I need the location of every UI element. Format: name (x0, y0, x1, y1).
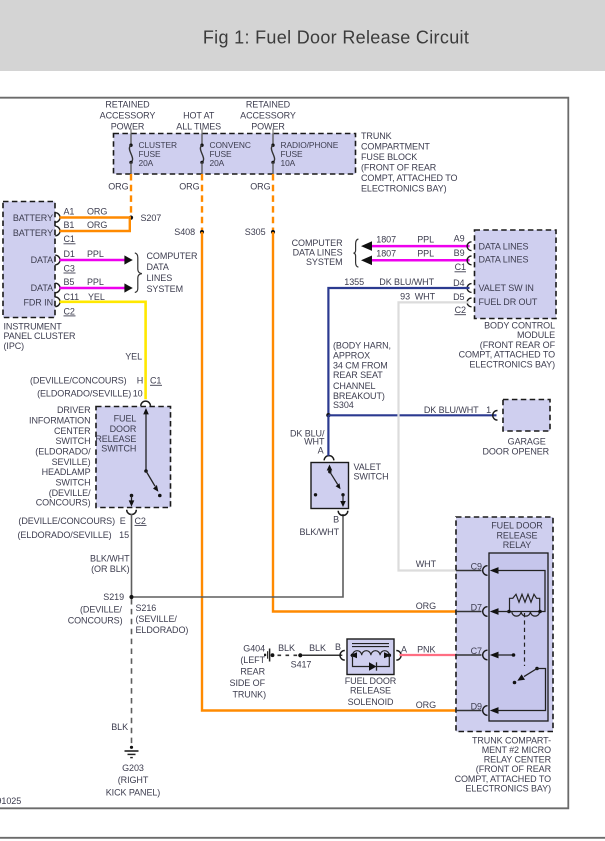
svg-text:(OR BLK): (OR BLK) (91, 564, 129, 574)
fuel door release relay outer box (456, 517, 553, 732)
svg-text:LINES: LINES (147, 273, 173, 283)
svg-text:G404: G404 (243, 644, 265, 654)
svg-text:CHANNEL: CHANNEL (333, 381, 376, 391)
svg-text:(DEVILLE/: (DEVILLE/ (80, 605, 122, 615)
svg-text:DATA LINES: DATA LINES (479, 241, 529, 251)
wire PNK solenoid A to relay C7 (400, 654, 457, 656)
svg-text:B9: B9 (454, 248, 465, 258)
svg-text:POWER: POWER (111, 122, 145, 132)
svg-text:TRUNK): TRUNK) (232, 689, 266, 699)
arrow B5 to computer data lines (124, 283, 132, 292)
IPC pin B1 connector arc (55, 226, 60, 236)
svg-text:KICK PANEL): KICK PANEL) (106, 787, 161, 797)
svg-text:C1: C1 (64, 234, 75, 244)
solenoid pin A arc (396, 651, 401, 661)
svg-text:(ELDORADO/SEVILLE): (ELDORADO/SEVILLE) (18, 530, 112, 540)
label computer data lines system (right) (292, 238, 343, 267)
svg-text:BLK: BLK (278, 643, 295, 653)
svg-text:D9: D9 (471, 701, 482, 711)
svg-text:BODY CONTROL: BODY CONTROL (484, 321, 555, 331)
svg-text:COMPT, ATTACHED TO: COMPT, ATTACHED TO (459, 349, 555, 359)
fuse F1 CLUSTER FUSE 20A (129, 134, 177, 175)
svg-text:DATA: DATA (147, 262, 169, 272)
IPC pin names (13, 213, 53, 307)
wire PPL B5 data line (60, 287, 127, 290)
label HOT AT ALL TIMES (convenc fuse) (176, 111, 221, 132)
svg-text:C1: C1 (455, 262, 466, 272)
svg-text:FDR IN: FDR IN (23, 297, 53, 307)
relay internal wire D7 to coil (497, 611, 509, 613)
svg-text:A1: A1 (64, 207, 75, 217)
svg-text:FUEL: FUEL (114, 413, 137, 423)
relay pin C9 (483, 566, 488, 576)
svg-text:1: 1 (486, 405, 491, 415)
svg-text:CONCOURS): CONCOURS) (68, 616, 123, 626)
svg-text:PPL: PPL (87, 277, 104, 287)
svg-text:RELEASE: RELEASE (95, 434, 136, 444)
label instrument panel cluster (4, 321, 77, 351)
svg-text:BLK: BLK (111, 722, 128, 732)
svg-text:S207: S207 (141, 213, 162, 223)
connector arc valet A (324, 456, 334, 461)
svg-text:34 CM FROM: 34 CM FROM (333, 360, 388, 370)
brace computer data lines (right) (354, 239, 359, 267)
relay switch contact (513, 667, 539, 685)
wire PPL 1807 A9 data line (369, 245, 470, 248)
wire ORG A1 to S207 (60, 216, 132, 218)
svg-text:ACCESSORY: ACCESSORY (240, 111, 296, 121)
wire stub D7 inside trunk relay center (456, 611, 482, 613)
trunk compartment fuse block box (114, 134, 356, 175)
svg-text:D7: D7 (471, 602, 482, 612)
svg-text:C1: C1 (150, 376, 161, 386)
BCM pin names (479, 241, 538, 306)
splice S408 (200, 230, 204, 234)
wire BLK/WHT switch C2 to S219 (131, 514, 133, 597)
svg-text:DATA LINES: DATA LINES (479, 255, 529, 265)
svg-text:C3: C3 (64, 263, 75, 273)
BCM pin D4 arc (467, 284, 471, 293)
svg-text:C11: C11 (64, 292, 80, 302)
svg-text:RELEASE: RELEASE (497, 530, 538, 540)
wire ORG B1 to S207 (60, 219, 130, 231)
svg-text:DK BLU/WHT: DK BLU/WHT (424, 405, 479, 415)
svg-text:REAR: REAR (240, 667, 265, 677)
svg-text:BLK: BLK (309, 643, 326, 653)
svg-text:(DEVILLE/CONCOURS): (DEVILLE/CONCOURS) (30, 376, 127, 386)
svg-text:COMPUTER: COMPUTER (147, 251, 198, 261)
svg-text:B: B (333, 515, 339, 525)
svg-text:ELECTRONICS BAY): ELECTRONICS BAY) (465, 784, 551, 794)
wire BLK S417 to solenoid B (302, 654, 342, 656)
wire ORG S305 to relay D7 (vertical run) (273, 232, 456, 612)
fuse F2 CONVENC FUSE 20A (200, 134, 251, 175)
svg-text:(DEVILLE/: (DEVILLE/ (49, 488, 91, 498)
svg-text:REAR SEAT: REAR SEAT (333, 370, 383, 380)
svg-text:B: B (335, 642, 341, 652)
wire BLK G404 to S417 (dashed) (278, 654, 298, 656)
relay internal wire C7 to contact (497, 654, 514, 656)
svg-text:(FRONT REAR OF: (FRONT REAR OF (480, 340, 556, 350)
svg-text:93: 93 (400, 292, 410, 302)
svg-text:B5: B5 (64, 277, 75, 287)
wire ORG from cluster fuse (dashed) (130, 174, 132, 215)
svg-text:VALET SW IN: VALET SW IN (479, 283, 534, 293)
svg-text:BATTERY: BATTERY (13, 213, 53, 223)
relay pin C7 (483, 650, 488, 660)
svg-text:G203: G203 (122, 763, 144, 773)
svg-text:ELECTRONICS BAY): ELECTRONICS BAY) (469, 360, 555, 370)
wire feed stub to cluster fuse (130, 129, 132, 134)
brace computer data lines (left) (135, 253, 142, 293)
svg-text:ORG: ORG (108, 181, 128, 191)
wire YEL C11 fuel door feed (60, 302, 146, 400)
svg-text:ORG: ORG (416, 700, 436, 710)
svg-text:INFORMATION: INFORMATION (29, 415, 90, 425)
label fuel door release solenoid (345, 676, 397, 707)
svg-text:(ELDORADO/: (ELDORADO/ (35, 447, 91, 457)
svg-text:FUEL DOOR: FUEL DOOR (491, 521, 543, 531)
connector arc switch C1 (141, 401, 151, 406)
svg-text:SEVILLE): SEVILLE) (52, 457, 91, 467)
svg-text:SWITCH: SWITCH (55, 436, 90, 446)
wire ORG S408 to relay D9 (vertical run) (202, 232, 456, 711)
svg-text:SWITCH: SWITCH (101, 444, 136, 454)
svg-text:A9: A9 (454, 234, 465, 244)
svg-text:DOOR: DOOR (110, 424, 137, 434)
svg-text:ORG: ORG (179, 181, 199, 191)
svg-text:D1: D1 (64, 249, 75, 259)
svg-text:(FRONT OF REAR: (FRONT OF REAR (361, 163, 437, 173)
svg-text:PNK: PNK (417, 644, 435, 654)
svg-text:MENT #2 MICRO: MENT #2 MICRO (482, 745, 551, 755)
svg-text:FUEL DOOR: FUEL DOOR (345, 676, 397, 686)
svg-text:GARAGE: GARAGE (508, 436, 546, 446)
svg-text:(RIGHT: (RIGHT (118, 775, 149, 785)
label driver information center switch / headlamp switch (29, 405, 91, 507)
label RETAINED ACCESSORY POWER (cluster fuse) (100, 99, 156, 131)
svg-text:20A: 20A (139, 158, 154, 168)
svg-text:VALET: VALET (354, 462, 382, 472)
svg-text:C9: C9 (471, 561, 482, 571)
svg-text:YEL: YEL (88, 292, 105, 302)
arrow D1 to computer data lines (124, 255, 132, 264)
svg-text:PPL: PPL (417, 234, 434, 244)
wire stub D9 inside trunk relay center (456, 710, 482, 712)
svg-text:BLK/WHT: BLK/WHT (300, 527, 340, 537)
svg-text:(IPC): (IPC) (4, 341, 25, 351)
svg-text:FUEL DR OUT: FUEL DR OUT (479, 297, 538, 307)
garage door opener box (503, 400, 550, 432)
svg-text:ELECTRONICS BAY): ELECTRONICS BAY) (361, 184, 447, 194)
svg-text:ORG: ORG (87, 207, 107, 217)
fuel door release switch box (96, 407, 171, 508)
splice S219 (129, 595, 133, 599)
solenoid clamping diode (353, 655, 390, 670)
valet switch symbol (314, 465, 346, 508)
valet switch box (311, 463, 349, 509)
svg-text:BLK/WHT: BLK/WHT (90, 553, 130, 563)
label computer data lines system (left) (147, 251, 198, 294)
ground G404 (264, 649, 274, 662)
wire BLK S219 to ground (dashed) (131, 599, 133, 747)
IPC pin C11 connector arc (55, 297, 60, 307)
svg-text:TRUNK COMPART-: TRUNK COMPART- (472, 735, 551, 745)
svg-text:S417: S417 (291, 659, 312, 669)
svg-text:RELAY CENTER: RELAY CENTER (484, 755, 552, 765)
fuse F3 RADIO/PHONE FUSE 10A (271, 134, 338, 175)
svg-text:RELEASE: RELEASE (350, 686, 391, 696)
connector arc switch C2 (127, 510, 137, 515)
wire DK BLU/WHT S304 to valet switch A (327, 415, 329, 456)
svg-text:PANEL CLUSTER: PANEL CLUSTER (4, 331, 77, 341)
svg-text:FUSE BLOCK: FUSE BLOCK (361, 152, 417, 162)
fuel door release solenoid box (347, 639, 394, 675)
svg-text:A: A (318, 446, 324, 456)
svg-text:ORG: ORG (416, 601, 436, 611)
garage door opener pin 1 arc (493, 411, 498, 421)
wire DK BLU/WHT 1355 D4 to S304 (328, 288, 469, 415)
wire ORG from radio/phone fuse (dashed) (272, 174, 274, 230)
svg-text:(FRONT OF REAR: (FRONT OF REAR (476, 764, 552, 774)
label trunk compartment #2 micro relay center (455, 735, 552, 793)
wire WHT 93 D5 to relay C9 (399, 302, 470, 570)
svg-text:10A: 10A (281, 158, 296, 168)
wire stub C9 inside trunk relay center (456, 570, 482, 572)
ground G203 (125, 746, 139, 758)
relay internal wire C9 to coil (497, 571, 545, 612)
svg-text:COMPT, ATTACHED TO: COMPT, ATTACHED TO (361, 173, 457, 183)
svg-text:ACCESSORY: ACCESSORY (100, 111, 156, 121)
wire feed stub to radio/phone fuse (272, 129, 274, 134)
wire ORG from convenc fuse (dashed) (201, 174, 203, 230)
svg-text:COMPARTMENT: COMPARTMENT (361, 142, 430, 152)
svg-text:S219: S219 (103, 592, 124, 602)
svg-text:S408: S408 (174, 227, 195, 237)
svg-text:SYSTEM: SYSTEM (147, 284, 184, 294)
instrument panel cluster (IPC) box (3, 202, 55, 318)
wire BLK/WHT S219 to valet switch B (134, 514, 343, 597)
svg-text:ALL TIMES: ALL TIMES (176, 122, 221, 132)
svg-text:A: A (401, 645, 407, 655)
footer rule (0, 837, 605, 839)
svg-text:D4: D4 (453, 278, 464, 288)
svg-text:20A: 20A (210, 158, 225, 168)
wire PPL D1 data line (60, 259, 127, 262)
svg-text:HOT AT: HOT AT (183, 111, 215, 121)
svg-text:10: 10 (133, 389, 143, 399)
diagram frame border (0, 98, 568, 809)
svg-text:SWITCH: SWITCH (354, 472, 389, 482)
wire stub C7 inside trunk relay center (456, 654, 482, 656)
svg-text:WHT: WHT (416, 559, 437, 569)
svg-text:WHT: WHT (415, 292, 436, 302)
svg-text:(SEVILLE/: (SEVILLE/ (136, 614, 178, 624)
svg-text:C2: C2 (135, 516, 146, 526)
svg-text:Fig 1: Fuel Door Release Circu: Fig 1: Fuel Door Release Circuit (203, 28, 469, 48)
relay pin D9 (483, 706, 488, 716)
solenoid coil symbol (350, 644, 391, 659)
svg-text:1807: 1807 (376, 234, 396, 244)
label trunk compartment fuse block (361, 131, 457, 194)
label G404 left rear side of trunk (230, 644, 267, 700)
relay actuation dashed link (524, 613, 526, 666)
svg-text:HEADLAMP: HEADLAMP (42, 467, 91, 477)
BCM pin B9 arc (467, 256, 471, 265)
svg-text:PPL: PPL (87, 249, 104, 259)
switch symbol (fuel door release) (129, 408, 162, 507)
svg-text:BATTERY: BATTERY (13, 228, 53, 238)
svg-text:1807: 1807 (376, 249, 396, 259)
wire DK BLU/WHT S304 to garage door opener (328, 414, 496, 416)
svg-text:DATA: DATA (31, 283, 53, 293)
svg-text:E: E (120, 516, 126, 526)
svg-text:RETAINED: RETAINED (105, 99, 150, 109)
svg-text:C2: C2 (64, 306, 75, 316)
svg-text:POWER: POWER (251, 122, 285, 132)
label fuel door release relay (491, 521, 543, 550)
connector arc valet B (338, 511, 348, 516)
svg-text:H: H (137, 376, 143, 386)
svg-text:RELAY: RELAY (503, 540, 532, 550)
svg-text:SOLENOID: SOLENOID (348, 697, 394, 707)
IPC pin A1 connector arc (55, 213, 60, 223)
svg-text:COMPT, ATTACHED TO: COMPT, ATTACHED TO (455, 774, 551, 784)
label fuel door release switch (95, 413, 137, 453)
svg-text:S216: S216 (136, 603, 157, 613)
splice S207 (129, 216, 133, 220)
svg-text:(DEVILLE/CONCOURS): (DEVILLE/CONCOURS) (18, 516, 115, 526)
svg-text:ORG: ORG (250, 181, 270, 191)
relay pin D7 (483, 607, 488, 617)
relay coil resistor element (507, 594, 542, 616)
splice S304 (326, 413, 330, 417)
svg-text:(LEFT: (LEFT (240, 655, 265, 665)
svg-text:APPROX: APPROX (333, 351, 370, 361)
IPC pin B5 connector arc (55, 283, 60, 293)
svg-text:CONCOURS): CONCOURS) (36, 497, 91, 507)
solenoid pin B arc (340, 651, 345, 661)
svg-text:PPL: PPL (417, 249, 434, 259)
svg-text:S304: S304 (333, 400, 354, 410)
svg-text:S305: S305 (245, 227, 266, 237)
relay inner housing (489, 553, 548, 721)
svg-text:ELDORADO): ELDORADO) (136, 625, 189, 635)
svg-text:SWITCH: SWITCH (55, 478, 90, 488)
svg-text:15: 15 (119, 530, 129, 540)
svg-text:DOOR OPENER: DOOR OPENER (482, 447, 549, 457)
relay internal wire contact to D9 (497, 669, 546, 711)
svg-text:1355: 1355 (344, 277, 364, 287)
header band (0, 0, 605, 71)
svg-text:YEL: YEL (125, 352, 142, 362)
svg-text:DATA: DATA (31, 255, 53, 265)
svg-text:SYSTEM: SYSTEM (306, 257, 343, 267)
BCM pin D5 arc (467, 298, 471, 307)
svg-text:C7: C7 (471, 646, 482, 656)
wire PPL 1807 B9 data line (369, 259, 470, 262)
svg-text:DK BLU/WHT: DK BLU/WHT (379, 277, 434, 287)
svg-text:DRIVER: DRIVER (57, 405, 91, 415)
svg-text:CENTER: CENTER (54, 426, 91, 436)
svg-text:RETAINED: RETAINED (246, 99, 291, 109)
BCM pin A9 arc (467, 242, 471, 251)
svg-text:MODULE: MODULE (517, 330, 555, 340)
svg-text:SIDE OF: SIDE OF (230, 678, 266, 688)
svg-text:ORG: ORG (87, 220, 107, 230)
svg-text:TRUNK: TRUNK (361, 131, 392, 141)
svg-text:INSTRUMENT: INSTRUMENT (4, 321, 63, 331)
svg-text:D5: D5 (453, 292, 464, 302)
label body harness breakout S304 (333, 341, 391, 411)
svg-text:B1: B1 (64, 220, 75, 230)
splice S417 (298, 653, 302, 657)
label RETAINED ACCESSORY POWER (radio fuse) (240, 99, 296, 131)
svg-text:(ELDORADO/SEVILLE): (ELDORADO/SEVILLE) (37, 389, 131, 399)
splice S305 (271, 230, 275, 234)
label body control module (459, 321, 556, 370)
body control module box (475, 230, 557, 319)
svg-text:(BODY HARN,: (BODY HARN, (333, 341, 391, 351)
wire feed stub to convenc fuse (201, 129, 203, 134)
svg-text:C2: C2 (455, 305, 466, 315)
label G203 right kick panel (106, 763, 161, 798)
IPC pin D1 connector arc (55, 255, 60, 265)
svg-text:91025: 91025 (0, 796, 21, 806)
